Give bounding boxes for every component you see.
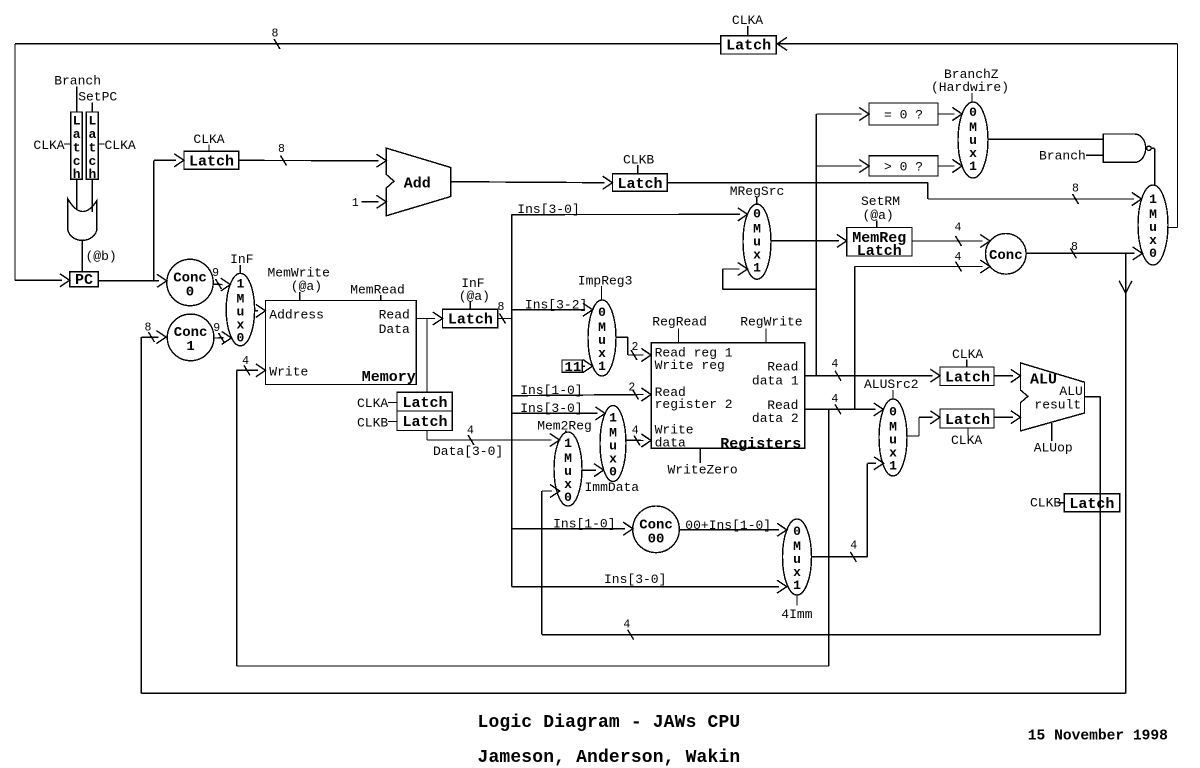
svg-text:0: 0 <box>186 284 194 300</box>
svg-text:9: 9 <box>213 322 220 335</box>
wire OR output to PC <box>81 240 83 271</box>
svg-text:Jameson, Anderson, Wakin: Jameson, Anderson, Wakin <box>478 748 741 768</box>
svg-text:Add: Add <box>404 175 431 192</box>
wire Memory read data output to InF latch <box>416 312 442 325</box>
wire U8 output to ALU input 1 <box>994 369 1021 382</box>
wire MRegSrc input 1 hook from read data 1 riser <box>723 263 817 290</box>
svg-text:CLKA: CLKA <box>105 138 136 153</box>
mux 4Imm <box>781 519 812 622</box>
svg-text:11: 11 <box>565 360 582 376</box>
wire into PC from left bus <box>15 274 70 287</box>
svg-text:0: 0 <box>1149 246 1157 261</box>
svg-text:ImmData: ImmData <box>585 480 640 495</box>
svg-text:Conc: Conc <box>989 248 1023 264</box>
latch U9 CLKA bottom <box>940 409 994 448</box>
svg-text:0: 0 <box>236 331 244 346</box>
svg-text:data 2: data 2 <box>752 411 799 426</box>
wire Data[3-0] from latch pair to Mem2Reg mux input 1 <box>427 425 559 459</box>
svg-text:ImpReg3: ImpReg3 <box>578 273 633 288</box>
wire Ins[3-2] to ImpReg3 mux <box>512 298 593 317</box>
svg-text:= 0 ?: = 0 ? <box>884 108 923 123</box>
svg-text:Latch: Latch <box>403 414 448 431</box>
svg-text:CLKB: CLKB <box>623 152 654 167</box>
svg-text:data: data <box>655 436 686 451</box>
svg-text:CLKA: CLKA <box>357 396 388 411</box>
svg-text:CLKA: CLKA <box>33 138 64 153</box>
wire PC output to Conc0 <box>98 274 167 287</box>
svg-text:Data[3-0]: Data[3-0] <box>433 444 503 459</box>
svg-text:00+Ins[1-0]: 00+Ins[1-0] <box>685 518 771 533</box>
node RegWrite label <box>740 314 802 343</box>
svg-text:Data: Data <box>379 322 410 337</box>
wire into greater-zero comparator <box>816 160 869 173</box>
svg-text:1: 1 <box>564 436 572 451</box>
or-gate G1 <box>68 199 97 241</box>
svg-text:Ins[3-0]: Ins[3-0] <box>517 202 579 217</box>
svg-text:8: 8 <box>1072 183 1079 196</box>
wire InF latch output to instruction bus <box>498 301 512 324</box>
wire ALUSrc2 mux output to latch U9 <box>907 411 940 436</box>
wire Conc1 output to InF mux input 0 <box>213 322 231 345</box>
wire U3 output to PC mux input 1 <box>667 183 1141 206</box>
wire read data 2 branch up into Conc <box>855 251 990 409</box>
svg-text:4: 4 <box>831 358 838 371</box>
wire read data 1 output to latch U8 <box>805 358 940 382</box>
svg-text:Registers: Registers <box>720 436 801 453</box>
svg-text:1: 1 <box>352 197 359 210</box>
svg-text:CLKA: CLKA <box>732 13 763 28</box>
node constant 1 into Add <box>352 195 386 210</box>
svg-text:CLKB: CLKB <box>357 416 388 431</box>
conc C2 00 <box>633 506 680 553</box>
conc C0 <box>167 259 213 305</box>
wire Conc output to PC mux input 0 <box>1026 241 1142 260</box>
svg-text:Address: Address <box>269 308 324 323</box>
wire Conc00 output to 4Imm mux input 0 <box>679 518 787 537</box>
wire MRegSrc output to MemReg latch <box>771 234 847 247</box>
svg-text:1: 1 <box>1149 192 1157 207</box>
node CLKA label left of L1 <box>33 138 70 153</box>
svg-text:4Imm: 4Imm <box>781 607 812 622</box>
svg-text:1: 1 <box>598 359 606 374</box>
svg-text:ALUop: ALUop <box>1034 441 1073 456</box>
wire U2 output to Add <box>239 143 386 167</box>
wire read data 1 riser to comparators <box>815 114 817 376</box>
mux InF <box>226 252 254 346</box>
svg-text:Ins[1-0]: Ins[1-0] <box>520 383 582 398</box>
svg-text:00: 00 <box>648 531 665 547</box>
svg-text:Mem2Reg: Mem2Reg <box>537 419 592 434</box>
wire Ins[3-0] to ImmData mux input 1 <box>512 401 605 420</box>
svg-text:0: 0 <box>753 207 761 222</box>
wire Ins[3-0] to 4Imm mux input 1 <box>512 572 787 593</box>
latch U8 CLKA top <box>940 347 994 387</box>
wire InF mux output to Memory Address <box>255 304 266 317</box>
alu ALU <box>1021 363 1085 431</box>
svg-text:SetPC: SetPC <box>78 90 117 105</box>
svg-text:Memory: Memory <box>362 369 416 386</box>
conc C1 <box>167 314 214 361</box>
nand gate G2 <box>1103 134 1151 162</box>
node constant 11 box <box>562 360 593 376</box>
latch U5 InF (@a) <box>443 276 498 328</box>
svg-text:4: 4 <box>623 619 630 632</box>
svg-text:8: 8 <box>498 301 505 314</box>
latch U4 MemReg SetRM <box>847 194 912 260</box>
mux PCsrc right <box>1138 185 1178 265</box>
svg-text:WriteZero: WriteZero <box>668 463 738 478</box>
svg-text:4: 4 <box>955 251 962 264</box>
svg-text:8: 8 <box>1071 241 1078 254</box>
wire into equal-zero comparator <box>816 108 869 121</box>
svg-text:9: 9 <box>212 267 219 280</box>
svg-text:InF: InF <box>230 252 253 267</box>
svg-text:0: 0 <box>969 105 977 120</box>
register PC <box>70 272 98 289</box>
svg-text:RegWrite: RegWrite <box>740 314 802 329</box>
svg-text:> 0 ?: > 0 ? <box>884 160 923 175</box>
mux MRegSrc <box>730 184 785 279</box>
svg-text:ALU: ALU <box>1030 371 1057 388</box>
wire Branch into latch L1 <box>76 87 78 113</box>
latch U3 CLKB <box>613 152 668 193</box>
svg-text:SetRM: SetRM <box>861 194 900 209</box>
svg-text:Write reg: Write reg <box>655 358 725 373</box>
wire ALU result feedback down <box>1085 397 1101 635</box>
svg-text:CLKA: CLKA <box>951 433 982 448</box>
svg-text:Branch: Branch <box>1039 148 1086 163</box>
wire Conc0 output to InF mux input 1 <box>212 267 230 291</box>
node WriteZero label <box>668 448 738 477</box>
svg-text:Read: Read <box>767 359 798 374</box>
wire MemReg latch output to Conc <box>912 222 990 248</box>
svg-text:Latch: Latch <box>448 311 493 328</box>
wire Mem2Reg mux output to ImmData mux input 0 <box>582 464 639 495</box>
latch U10 CLKB on feedback <box>1030 494 1120 513</box>
svg-text:Read: Read <box>379 308 410 323</box>
wire ImpReg3 mux output to Registers read reg 1 <box>616 337 651 361</box>
svg-text:4: 4 <box>831 393 838 406</box>
comparator CMP1 =0? <box>869 103 938 125</box>
svg-text:4: 4 <box>632 425 639 438</box>
svg-text:4: 4 <box>242 355 249 368</box>
wire NAND output down to PC mux select <box>1151 148 1155 186</box>
svg-text:1: 1 <box>969 159 977 174</box>
wire ALU feedback bottom run to Mem2Reg mux input 0 <box>542 485 1101 640</box>
wire read data branch down to latch pair <box>426 319 428 393</box>
wire Ins[1-0] to Conc00 <box>512 517 633 536</box>
svg-text:1: 1 <box>609 411 617 426</box>
svg-text:ALUSrc2: ALUSrc2 <box>864 377 919 392</box>
svg-text:Latch: Latch <box>857 243 902 260</box>
svg-text:Ins[3-2]: Ins[3-2] <box>525 298 587 313</box>
latch L1 vertical Branch <box>71 112 83 182</box>
svg-text:MemRead: MemRead <box>350 283 405 298</box>
mux ALUSrc2 <box>864 377 919 476</box>
wire ImmData mux output to Registers write data <box>626 425 651 448</box>
svg-text:1: 1 <box>186 339 194 355</box>
svg-text:4: 4 <box>850 540 857 553</box>
adder Add <box>386 148 451 216</box>
svg-text:Ins[3-0]: Ins[3-0] <box>520 401 582 416</box>
svg-text:result: result <box>1034 398 1081 413</box>
svg-text:1: 1 <box>889 459 897 474</box>
svg-text:register 2: register 2 <box>655 397 733 412</box>
svg-text:0: 0 <box>889 405 897 420</box>
svg-text:RegRead: RegRead <box>652 314 707 329</box>
svg-text:Logic Diagram - JAWs CPU: Logic Diagram - JAWs CPU <box>478 713 741 733</box>
svg-text:(@a): (@a) <box>459 289 490 304</box>
node Branch label into NAND <box>1039 148 1103 163</box>
node ALUop label <box>1034 423 1073 456</box>
svg-text:8: 8 <box>145 321 152 334</box>
wire instruction bus vertical <box>511 215 513 587</box>
registers block <box>651 343 805 453</box>
wire loop4 read data 2 to Memory write <box>237 370 829 666</box>
wire junction up to latch U2 <box>154 154 184 281</box>
latch L2 vertical SetPC <box>86 112 98 182</box>
svg-text:Latch: Latch <box>618 176 663 193</box>
svg-text:PC: PC <box>75 272 93 289</box>
node Mem2Reg label <box>537 419 592 434</box>
wire Conc1 feedback loop down from Conc output <box>141 253 1132 693</box>
svg-text:Latch: Latch <box>945 412 990 429</box>
node CLKA label right of L2 <box>98 138 136 153</box>
svg-text:Ins[1-0]: Ins[1-0] <box>553 517 615 532</box>
wire 4Imm mux output to ALUSrc2 mux input 1 <box>812 457 884 562</box>
wire SetPC into latch L2 <box>91 103 93 113</box>
svg-text:(@a): (@a) <box>291 279 322 294</box>
svg-text:0: 0 <box>564 490 572 505</box>
svg-text:2: 2 <box>632 341 639 354</box>
wire CMP1 output to BranchZ mux input 0 <box>938 108 962 121</box>
svg-text:CLKB: CLKB <box>1030 495 1061 510</box>
wire top feedback bus left segment <box>15 28 721 281</box>
svg-text:1: 1 <box>753 261 761 276</box>
mux ImpReg3 <box>578 273 633 376</box>
wire Memory write input from loop4 <box>237 355 266 377</box>
svg-text:8: 8 <box>272 28 279 41</box>
svg-text:Branch: Branch <box>54 74 101 89</box>
svg-text:0: 0 <box>609 465 617 480</box>
svg-text:Latch: Latch <box>726 38 771 55</box>
wire Add output to latch U3 <box>451 176 613 189</box>
comparator CMP2 >0? <box>869 156 938 176</box>
node RegRead label <box>652 314 707 343</box>
mux ImmData <box>600 406 626 482</box>
conc C3 right <box>986 234 1027 275</box>
wire Ins[3-0] to MRegSrc mux <box>512 202 748 221</box>
svg-text:Latch: Latch <box>1069 496 1114 513</box>
wire top feedback bus right segment with arrow into U1 <box>777 37 1177 227</box>
svg-text:(Hardwire): (Hardwire) <box>931 80 1009 95</box>
svg-text:Latch: Latch <box>189 154 234 171</box>
svg-text:4: 4 <box>955 222 962 235</box>
svg-text:0: 0 <box>793 524 801 539</box>
wire CMP2 output to BranchZ mux input 1 <box>938 160 962 173</box>
svg-text:15 November 1998: 15 November 1998 <box>1028 728 1168 744</box>
memory block <box>266 301 417 386</box>
svg-text:4: 4 <box>467 425 474 438</box>
wire loop8 arrow into Conc1 <box>141 321 166 343</box>
latch U1 top CLKA <box>721 13 777 55</box>
svg-text:Latch: Latch <box>945 370 990 387</box>
svg-text:Latch: Latch <box>403 395 448 412</box>
node MemRead label <box>350 283 405 301</box>
latch pair U6 CLKA / U7 CLKB <box>357 392 452 431</box>
wire Ins[1-0] to Registers read register 2 <box>512 382 651 402</box>
wire BranchZ mux output to NAND <box>988 138 1103 140</box>
wire read data 2 output to ALUSrc2 mux input 0 <box>805 393 884 416</box>
svg-text:0: 0 <box>598 305 606 320</box>
svg-text:1: 1 <box>236 277 244 292</box>
wire L2 output into OR gate <box>91 179 93 212</box>
svg-text:2: 2 <box>628 382 635 395</box>
svg-text:(@b): (@b) <box>86 249 117 264</box>
svg-text:1: 1 <box>793 578 801 593</box>
node MemWrite label <box>268 266 330 301</box>
wire U9 output to ALU input 2 <box>994 411 1021 424</box>
wire L1 output into OR gate <box>76 179 78 209</box>
mux BranchZ <box>931 67 1009 178</box>
mux Mem2Reg <box>554 432 582 506</box>
svg-text:CLKA: CLKA <box>952 347 983 362</box>
svg-text:8: 8 <box>278 143 285 156</box>
svg-text:Ins[3-0]: Ins[3-0] <box>604 572 666 587</box>
svg-text:data 1: data 1 <box>752 373 799 388</box>
latch U2 CLKA mid <box>184 132 239 171</box>
svg-text:Write: Write <box>269 365 308 380</box>
svg-text:(@a): (@a) <box>863 208 894 223</box>
